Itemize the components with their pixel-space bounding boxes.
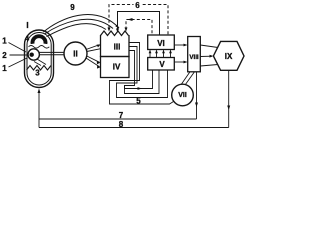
- svg-text:VII: VII: [178, 92, 187, 99]
- block V: [148, 58, 175, 71]
- riser VIII to line 7: [196, 72, 198, 119]
- svg-text:9: 9: [70, 3, 75, 12]
- wire VIII to IX bottom: [200, 65, 218, 67]
- circle VII: [172, 84, 194, 106]
- bundle wire wA to VII: [110, 43, 174, 105]
- hatch strokes below ball: [34, 59, 46, 66]
- svg-text:IX: IX: [225, 52, 233, 61]
- heat pipe curve 9 middle: [45, 19, 114, 34]
- wire II to III lower: [87, 49, 100, 52]
- svg-text:7: 7: [119, 111, 124, 120]
- block III body: [101, 35, 130, 57]
- block IV: [101, 57, 130, 78]
- piston ball: [28, 49, 39, 60]
- wire V to VIII: [174, 61, 186, 63]
- svg-text:II: II: [73, 50, 77, 59]
- hexagon IX: [213, 41, 244, 70]
- riser IX to line 8: [228, 70, 230, 127]
- leader line 2: [10, 54, 28, 56]
- svg-text:III: III: [114, 42, 121, 51]
- svg-text:VI: VI: [157, 39, 165, 48]
- solid control wire: [118, 12, 160, 35]
- wire II to III upper: [86, 45, 100, 50]
- svg-text:6: 6: [135, 1, 140, 10]
- wire VIII to IX middle: [200, 55, 212, 57]
- svg-text:2: 2: [2, 51, 7, 60]
- svg-text:5: 5: [136, 97, 141, 106]
- riser to capsule: [38, 91, 40, 128]
- dashed control loop outer (6): [109, 5, 168, 35]
- wires VIII to VII: [181, 72, 195, 85]
- label 6: [134, 1, 142, 8]
- arrows V to VI: [150, 50, 171, 57]
- displacer crescent (dark arc): [33, 36, 46, 44]
- wavy line under dome: [29, 46, 50, 49]
- svg-text:VIII: VIII: [189, 54, 199, 61]
- svg-text:V: V: [159, 60, 165, 69]
- feedback line 8: [39, 127, 229, 129]
- block VI: [148, 35, 175, 50]
- block VIII: [188, 37, 201, 72]
- bundle wire wB: [117, 47, 168, 98]
- svg-text:1: 1: [2, 64, 7, 73]
- wire VIII to IX top: [200, 45, 218, 48]
- ball nucleus: [30, 53, 34, 57]
- svg-text:I: I: [26, 21, 28, 30]
- zigzag bottom of capsule: [27, 66, 52, 71]
- heat pipe curve 9 bottom: [47, 24, 107, 37]
- svg-text:1: 1: [2, 37, 7, 46]
- block III zigzag top: [101, 31, 129, 36]
- wire II to IV upper: [87, 56, 100, 62]
- svg-text:IV: IV: [113, 62, 121, 71]
- bundle wire wD: [125, 70, 153, 89]
- engine capsule I inner wall: [27, 33, 51, 86]
- generator circle II: [64, 42, 87, 65]
- wire VI to VIII: [174, 44, 186, 46]
- wire II to IV lower: [86, 58, 100, 67]
- dashed control loop inner: [126, 20, 152, 35]
- svg-text:8: 8: [119, 120, 124, 129]
- bundle wire wC: [125, 51, 160, 94]
- svg-text:3: 3: [35, 69, 40, 78]
- engine capsule I outer wall: [25, 30, 54, 88]
- leader line 1 bottom: [9, 58, 28, 67]
- heat pipe curve 9 top: [44, 15, 120, 32]
- leader line 1 top: [9, 43, 27, 53]
- feedback line 7: [39, 118, 197, 120]
- shaft double line capsule to II: [40, 52, 65, 54]
